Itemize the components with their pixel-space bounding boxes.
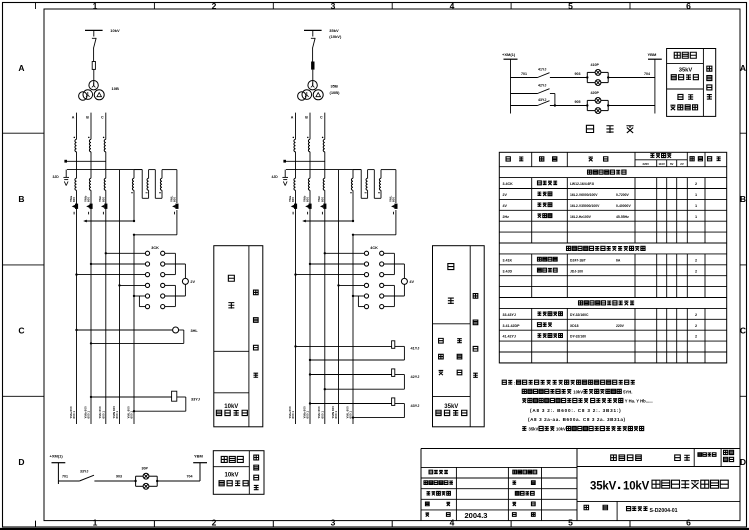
svg-text:1: 1 (93, 517, 98, 527)
drawing title 35kV 10kV voltage transformer wiring diagram (590, 480, 728, 492)
discharge arrester 3JD (53, 170, 70, 186)
table row 3.41.42DP (503, 323, 698, 328)
zone numbers top (93, 1, 692, 11)
primary winding phase C (104, 139, 106, 151)
svg-text:35kV: 35kV (329, 28, 339, 33)
residual winding open-delta chain (131, 170, 177, 221)
primary winding phase A (294, 139, 296, 151)
svg-text:600 1: 600 1 (291, 411, 295, 419)
svg-text:16L2-V6000/100V: 16L2-V6000/100V (570, 193, 598, 197)
phase wire B (90, 113, 92, 140)
svg-text:600: 600 (320, 197, 324, 202)
svg-text:2V: 2V (503, 193, 508, 197)
svg-text:0-7200V: 0-7200V (616, 193, 630, 197)
svg-text:S-D2004-01: S-D2004-01 (650, 508, 678, 514)
svg-text:A: A (740, 63, 746, 73)
title block signature labels (424, 470, 537, 520)
svg-text:1: 1 (695, 204, 697, 208)
disconnect switch QS2 (311, 30, 316, 61)
svg-text:10kV: 10kV (623, 481, 650, 493)
bus YBM 35kV signal (648, 52, 662, 114)
svg-text:DY-32/160: DY-32/160 (570, 335, 586, 339)
svg-text:4V: 4V (503, 204, 508, 208)
svg-text:B: B (86, 116, 89, 120)
signal row 701-903-704 with contact 41YJ (511, 67, 588, 77)
table row 41.42YJ (503, 334, 698, 339)
zone letters right (740, 63, 746, 467)
zone letters left (18, 63, 24, 467)
table row 4V (503, 203, 698, 208)
table section header (567, 246, 646, 250)
svg-text:35kV: 35kV (529, 427, 539, 432)
svg-text:(10B): (10B) (330, 90, 341, 95)
terminal left stubs (75, 252, 145, 307)
svg-text:(A8 3 2a-aa. B600a. C8 3 2a.: (A8 3 2a-aa. B600a. C8 3 2a. 3B31a) (528, 417, 626, 422)
svg-text:3.41K: 3.41K (503, 258, 513, 262)
svg-text:905: 905 (575, 100, 581, 104)
svg-text:6V: 6V (670, 162, 674, 166)
svg-text:600 1: 600 1 (115, 411, 119, 419)
wire n from neutral (119, 170, 121, 424)
svg-text:A: A (291, 116, 294, 120)
svg-text:2Hz: 2Hz (503, 215, 510, 219)
svg-text:35kV: 35kV (679, 67, 693, 73)
svg-text:3.41.42DP: 3.41.42DP (503, 324, 521, 328)
svg-text:600: 600 (291, 197, 295, 202)
svg-text:2: 2 (695, 313, 697, 317)
notes text (502, 380, 653, 431)
phase labels A B C (72, 116, 104, 120)
secondary winding phase b (308, 170, 310, 191)
secondary winding phase c (323, 170, 325, 191)
svg-text:600: 600 (72, 197, 76, 202)
svg-text:5: 5 (568, 517, 573, 527)
winding polarity dots (293, 137, 324, 139)
fuse FU1 (92, 62, 95, 81)
svg-text:(10kV): (10kV) (329, 34, 342, 39)
signal lamp 3HL (75, 327, 198, 345)
svg-text:45-55Hz: 45-55Hz (616, 215, 629, 219)
table row 33.43YJ (503, 312, 698, 317)
fuse FU2 (311, 62, 314, 81)
secondary winding phase a (75, 170, 77, 191)
svg-text:+XM(1): +XM(1) (50, 454, 64, 459)
phase wire A (295, 113, 297, 140)
svg-text:2V: 2V (680, 162, 684, 166)
secondary winding phase c (104, 170, 106, 191)
svg-text:0-40000V: 0-40000V (616, 204, 631, 208)
zone dividers left strip (3, 133, 45, 396)
zone numbers bottom (93, 517, 692, 527)
svg-text:600 1: 600 1 (87, 411, 91, 419)
svg-text:410P: 410P (591, 63, 600, 67)
svg-text:A: A (18, 63, 24, 73)
svg-text:43YJ: 43YJ (538, 98, 546, 102)
svg-text:4: 4 (450, 1, 455, 11)
lamp group 410P (586, 63, 655, 86)
table row 3.4CK (503, 181, 698, 186)
svg-text:LW12-16/4.6F.8: LW12-16/4.6F.8 (570, 182, 594, 186)
phase wire B (309, 113, 311, 140)
svg-text:3: 3 (331, 1, 336, 11)
svg-text:4JD: 4JD (272, 175, 279, 179)
svg-text:C: C (101, 116, 104, 120)
legend box 10kV signal (213, 451, 264, 495)
primary winding phase A (75, 139, 77, 151)
svg-text:D: D (18, 457, 24, 467)
discharge arrester 4JD (272, 170, 289, 186)
bus +XM(1) 10kV signal (50, 454, 66, 485)
svg-text:30P: 30P (142, 466, 149, 470)
secondary neutral bus (67, 169, 142, 171)
wires to neutral bus (296, 152, 325, 170)
svg-text:220V: 220V (616, 324, 625, 328)
svg-text:10kV: 10kV (573, 389, 583, 394)
open-delta output lead wire (133, 210, 177, 236)
svg-text:600: 600 (173, 197, 177, 202)
svg-text:2: 2 (695, 182, 697, 186)
voltmeter 2V (165, 264, 196, 296)
svg-text:3: 3 (331, 517, 336, 527)
title block project name (611, 450, 734, 461)
svg-text:600 1: 600 1 (306, 411, 310, 419)
svg-text:600 1: 600 1 (320, 411, 324, 419)
terminal block 4CK (364, 246, 383, 309)
svg-text:+XM(1): +XM(1) (502, 52, 516, 57)
svg-text:6A: 6A (616, 258, 621, 262)
voltage relay tap wire with arrow (302, 220, 354, 223)
svg-text:C: C (320, 116, 323, 120)
open-delta output lead wire (352, 210, 396, 236)
svg-text:704: 704 (644, 72, 650, 76)
svg-text:6: 6 (686, 1, 691, 11)
svg-text:16L2-V35000/100V: 16L2-V35000/100V (570, 204, 600, 208)
svg-text:41.42YJ: 41.42YJ (503, 335, 516, 339)
title block frame (421, 449, 740, 521)
svg-text:33YJ: 33YJ (80, 469, 88, 473)
voltage relay coil 41YJ (294, 341, 419, 361)
table section header (588, 170, 626, 174)
voltmeter 4V (384, 264, 415, 296)
svg-text:2: 2 (695, 335, 697, 339)
svg-text:600 1: 600 1 (334, 411, 338, 419)
svg-text:1: 1 (93, 1, 98, 11)
svg-text:42YJ: 42YJ (411, 375, 420, 379)
svg-text:220V: 220V (643, 162, 650, 166)
phase wire C (105, 113, 107, 140)
bus YBM 10kV signal (193, 454, 207, 482)
phase labels A B C (291, 116, 323, 120)
svg-text:2004.3: 2004.3 (465, 511, 488, 520)
svg-text:903: 903 (575, 72, 581, 76)
legend box 35kV signal (667, 49, 716, 117)
svg-text:5: 5 (568, 1, 573, 11)
svg-text:2: 2 (695, 324, 697, 328)
svg-text:DZ47-1BT: DZ47-1BT (570, 258, 587, 262)
winding polarity dots (74, 137, 105, 139)
disconnect switch QS1 (92, 30, 97, 61)
meter/voltage-circuit box 10kV (214, 246, 263, 427)
table row 2Hz (503, 214, 698, 219)
voltage relay tap wire with arrow (83, 220, 135, 223)
svg-text:4CK: 4CK (370, 246, 378, 250)
voltage transformer 10B (79, 81, 119, 101)
primary neutral bus (64, 160, 105, 163)
svg-text:1: 1 (695, 193, 697, 197)
svg-text:4: 4 (450, 517, 455, 527)
svg-text:3CK: 3CK (151, 246, 159, 250)
svg-text:41YJ: 41YJ (538, 67, 546, 71)
svg-text:10kV: 10kV (224, 404, 238, 410)
table header labels (506, 153, 721, 165)
primary winding phase B (89, 139, 91, 151)
terminal block 3CK (145, 246, 164, 309)
table row 3.4JD (503, 268, 698, 273)
zone tick marks bottom (36, 521, 631, 527)
secondary neutral bus (286, 169, 361, 171)
primary winding phase C (323, 139, 325, 151)
svg-text:A: A (72, 116, 75, 120)
svg-text:903: 903 (116, 475, 122, 479)
primary neutral bus (283, 160, 324, 163)
equipment table title (586, 125, 633, 133)
signal row 905 with contact 43YJ (511, 98, 588, 107)
lead labels upper (288, 196, 396, 203)
svg-text:5YH.: 5YH. (623, 389, 632, 394)
busbar 35kV (304, 28, 342, 39)
lead labels lower (288, 406, 353, 419)
residual winding open-delta chain (350, 170, 396, 221)
svg-text:2: 2 (212, 1, 217, 11)
svg-text:C: C (740, 326, 746, 336)
fuse arrow symbols on leads (291, 204, 398, 215)
svg-text:600: 600 (392, 197, 396, 202)
lamp group 30P (134, 466, 200, 489)
svg-text:10B: 10B (112, 86, 119, 91)
terminal right jumpers (384, 253, 395, 306)
svg-text:2: 2 (695, 269, 697, 273)
svg-text:XD18: XD18 (570, 324, 579, 328)
svg-text:(A8 3 2:. B600:. C8 3 2:. 3: (A8 3 2:. B600:. C8 3 2:. 3B31:) (530, 408, 621, 413)
svg-text:D: D (740, 457, 746, 467)
primary winding phase B (308, 139, 310, 151)
secondary winding phase b (89, 170, 91, 191)
svg-text:Y Ha. Y Hb......: Y Ha. Y Hb...... (625, 399, 653, 404)
bus +XM(1) 35kV signal (502, 52, 518, 114)
signal row 701-903-704 with contact 33YJ (58, 469, 135, 481)
secondary lead wires down (77, 190, 135, 424)
svg-text:600: 600 (87, 197, 91, 202)
svg-text:1: 1 (695, 215, 697, 219)
svg-text:4V: 4V (409, 280, 414, 284)
voltage relay coil 42YJ (309, 369, 420, 391)
svg-text:600 1: 600 1 (101, 411, 105, 419)
svg-text:600 1: 600 1 (72, 411, 76, 419)
lead labels lower (69, 406, 134, 419)
terminal left stubs (294, 252, 364, 307)
zone dividers right strip (740, 133, 747, 396)
secondary winding phase a (294, 170, 296, 191)
svg-text:43YJ: 43YJ (411, 404, 420, 408)
svg-text:33.43YJ: 33.43YJ (503, 313, 516, 317)
svg-text:16L2-Hz100V: 16L2-Hz100V (570, 215, 592, 219)
svg-text:600: 600 (101, 197, 105, 202)
svg-text:41YJ: 41YJ (411, 347, 420, 351)
lead labels upper (69, 196, 177, 203)
svg-text:33YJ: 33YJ (191, 397, 200, 401)
svg-text:6: 6 (686, 517, 691, 527)
svg-text:701: 701 (521, 72, 527, 76)
svg-text:110V: 110V (659, 162, 666, 166)
svg-text:3.4CK: 3.4CK (503, 182, 514, 186)
drawing number (584, 505, 678, 514)
svg-text:B: B (18, 194, 24, 204)
terminal right jumpers (165, 253, 176, 306)
phase wire A (76, 113, 78, 140)
svg-text:35kV: 35kV (444, 404, 458, 410)
phase wire C (324, 113, 326, 140)
table section header (579, 301, 635, 305)
svg-text:42YJ: 42YJ (538, 83, 546, 87)
secondary lead wires down (296, 190, 354, 424)
svg-text:JDJ-100: JDJ-100 (570, 269, 583, 273)
svg-text:420P: 420P (591, 91, 600, 95)
svg-text:3.4JD: 3.4JD (503, 269, 513, 273)
svg-text:3JD: 3JD (53, 175, 60, 179)
svg-text:600: 600 (306, 197, 310, 202)
svg-text:2: 2 (212, 517, 217, 527)
wire n from neutral (338, 170, 340, 424)
svg-text:2: 2 (695, 258, 697, 262)
svg-text:YBM: YBM (194, 454, 204, 459)
svg-text:2V: 2V (190, 280, 195, 284)
svg-text:10kV: 10kV (110, 28, 120, 33)
fuse arrow symbols on leads (72, 204, 179, 215)
voltage relay coil 43YJ (309, 398, 420, 419)
svg-text:704: 704 (187, 475, 193, 479)
equipment table grid (499, 152, 726, 363)
svg-text:YBM: YBM (648, 52, 658, 57)
busbar 10kV (85, 28, 120, 33)
svg-text:35kV: 35kV (590, 481, 617, 493)
voltage transformer 35B (298, 81, 341, 101)
voltage relay coil 33YJ (90, 391, 200, 412)
table row 2V (503, 192, 698, 197)
svg-text:DY-32/160C: DY-32/160C (570, 313, 589, 317)
svg-text:B: B (305, 116, 308, 120)
table row 3.41K (503, 257, 698, 262)
svg-text:C: C (18, 326, 24, 336)
meter/voltage-circuit box 35kV (433, 246, 485, 427)
zone tick marks top (36, 3, 631, 10)
contact 42YJ branch (511, 83, 555, 105)
svg-text:10kV: 10kV (224, 473, 238, 479)
wires to neutral bus (77, 152, 106, 170)
lamp group 420P (586, 91, 655, 113)
svg-text:10kV: 10kV (556, 427, 566, 432)
svg-text:35B: 35B (331, 84, 338, 89)
svg-text:B: B (740, 194, 746, 204)
svg-text:701: 701 (62, 475, 68, 479)
svg-text:3HL: 3HL (191, 329, 199, 333)
